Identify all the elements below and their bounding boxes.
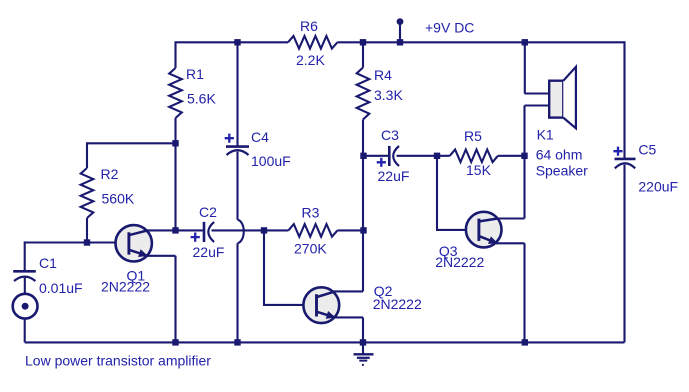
svg-text:R5: R5 [464, 128, 482, 144]
wire R5 right lead [498, 155, 525, 157]
wire C3 left lead [364, 155, 390, 157]
wire R4 top lead [362, 42, 364, 67]
wire C2 to R3 [212, 229, 289, 231]
node emitter/rail junction [172, 339, 178, 345]
ground symbol [362, 342, 364, 354]
wire Q3 base branch [437, 156, 479, 230]
node R5/Q3 collector junction [521, 153, 527, 159]
wire speaker top lead [525, 42, 550, 93]
svg-text:3.3K: 3.3K [374, 87, 403, 103]
svg-text:C4: C4 [251, 129, 269, 145]
speaker K1 [549, 81, 563, 118]
wire bottom ground rail [25, 341, 625, 343]
wire Q2 emitter to ground [362, 317, 364, 342]
node R4/C3 junction [360, 153, 366, 159]
wire input to Q1 base [25, 241, 129, 243]
svg-text:100uF: 100uF [251, 153, 291, 169]
svg-text:220uF: 220uF [638, 179, 678, 195]
svg-text:0.01uF: 0.01uF [39, 280, 83, 296]
node R3 left / Q2 base branch [261, 227, 267, 233]
svg-text:C1: C1 [39, 255, 57, 271]
svg-text:R6: R6 [300, 18, 318, 34]
capacitor C3 [388, 146, 391, 166]
capacitor C1 [13, 270, 36, 273]
node +9V DC [397, 18, 404, 25]
node R3/Q2 collector junction [360, 227, 366, 233]
resistor R1 [169, 68, 182, 118]
svg-text:2N2222: 2N2222 [373, 296, 422, 312]
node Q1 collector / C2 [172, 227, 178, 233]
svg-text:2N2222: 2N2222 [101, 279, 150, 295]
svg-text:64 ohm: 64 ohm [536, 146, 583, 162]
wire input jack to ground rail [24, 319, 26, 343]
resistor R2 [81, 168, 94, 218]
resistor R4 [357, 68, 370, 120]
svg-text:+9V DC: +9V DC [425, 19, 474, 35]
node hop-line/rail junction [234, 339, 240, 345]
node R1/R2 junction [172, 140, 178, 146]
node speaker top [522, 39, 528, 45]
svg-text:Low power transistor amplifier: Low power transistor amplifier [25, 353, 211, 369]
transistor Q2 2N2222 [303, 287, 339, 323]
svg-text:C2: C2 [199, 204, 217, 220]
svg-text:560K: 560K [102, 191, 135, 207]
node Q3 emitter/rail junction [522, 339, 528, 345]
svg-text:R4: R4 [374, 67, 392, 83]
svg-text:C5: C5 [638, 142, 656, 158]
wire C3 right lead [397, 155, 450, 157]
transistor Q3 2N2222 [466, 212, 502, 248]
wire C4 bottom lead [236, 152, 238, 220]
wire hop to ground rail [236, 243, 238, 342]
wire C1 to input jack [24, 278, 26, 295]
svg-text:R2: R2 [101, 166, 119, 182]
svg-text:15K: 15K [466, 162, 492, 178]
wire R2 bottom lead [86, 218, 88, 243]
resistor R5 [450, 150, 498, 163]
capacitor C2 [178, 229, 203, 231]
svg-text:Speaker: Speaker [536, 162, 588, 178]
node R4 top [360, 39, 366, 45]
node C3/R5/Q3 base junction [434, 153, 440, 159]
transistor Q1 2N2222 [116, 225, 152, 261]
wire top rail right segment [337, 41, 624, 43]
svg-text:K1: K1 [537, 127, 554, 143]
svg-text:C3: C3 [381, 127, 399, 143]
resistor R6 [288, 36, 337, 49]
svg-text:22uF: 22uF [378, 168, 410, 184]
wire Q1 emitter down [174, 256, 176, 343]
svg-text:R1: R1 [186, 66, 204, 82]
wire R3 right lead [337, 229, 363, 231]
node C4 top [234, 39, 240, 45]
wire R4 bottom / Q2 collector line [362, 120, 364, 292]
svg-text:270K: 270K [294, 241, 327, 257]
wire speaker bottom lead [525, 106, 550, 219]
svg-text:2.2K: 2.2K [296, 52, 325, 68]
wire C5 top lead [623, 41, 625, 159]
resistor R3 [288, 224, 337, 237]
svg-text:22uF: 22uF [193, 244, 225, 260]
wire C4 top lead [236, 42, 238, 146]
input jack J1 [13, 294, 38, 319]
wire top rail left segment [176, 41, 289, 43]
node ground junction [360, 339, 366, 345]
node base junction [84, 239, 90, 245]
wire C5 bottom lead [623, 165, 625, 343]
wire R2 top horizontal [87, 142, 176, 144]
capacitor C5 [613, 147, 622, 156]
svg-text:5.6K: 5.6K [187, 91, 216, 107]
capacitor C4 [225, 134, 234, 143]
wire left branch vertical (top) [174, 41, 176, 68]
wire C1 top lead [24, 241, 26, 270]
wire R1 bottom to collector node [174, 118, 176, 230]
wire Q3 emitter to ground [523, 243, 525, 342]
svg-text:2N2222: 2N2222 [435, 254, 484, 270]
wire R2 top lead [86, 142, 88, 168]
wire Q2 base branch [264, 230, 317, 305]
svg-text:R3: R3 [302, 204, 320, 220]
wire hop over signal wire [238, 220, 244, 244]
